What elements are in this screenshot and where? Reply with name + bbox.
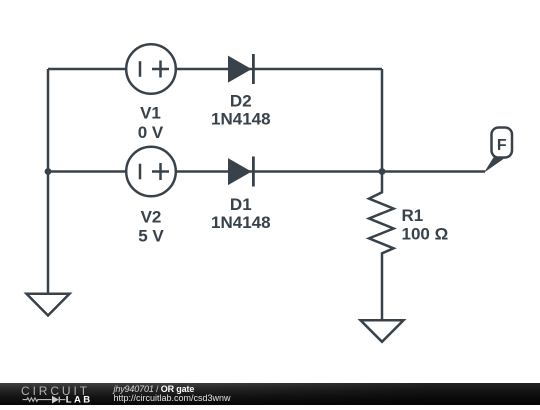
voltage source V1 [126, 44, 176, 94]
label R1 [402, 206, 424, 225]
svg-text:F: F [497, 137, 507, 154]
CircuitLab logo [20, 384, 95, 405]
ground (left rail) [27, 294, 70, 316]
svg-text:100 Ω: 100 Ω [402, 225, 449, 244]
footer title text [114, 385, 195, 394]
wire: second row horizontal net to flag [48, 170, 485, 173]
flag F box [492, 128, 513, 158]
svg-text:0 V: 0 V [138, 123, 164, 142]
footer bar [0, 383, 540, 405]
svg-text:V2: V2 [141, 208, 162, 227]
label V1 [140, 104, 161, 123]
svg-text:V1: V1 [140, 104, 161, 123]
voltage source V2 [126, 147, 176, 197]
diode D1 [228, 157, 253, 187]
label D1 [230, 195, 252, 214]
junction dot output node [379, 168, 386, 175]
value 100 Ω [402, 225, 449, 244]
value 5 V [138, 226, 164, 245]
value 0 V [138, 123, 164, 142]
wire: left vertical rail [47, 69, 50, 294]
svg-text:1N4148: 1N4148 [211, 110, 271, 129]
wire: right vertical between top net and junction [381, 69, 384, 172]
footer url text [114, 394, 231, 403]
value 1N4148 (D1) [211, 213, 271, 232]
resistor R1 [369, 172, 394, 321]
diode D2 [228, 54, 253, 84]
svg-text:5 V: 5 V [138, 226, 164, 245]
flag pennant connector [484, 157, 504, 172]
flag F letter [497, 137, 507, 154]
label D2 [230, 92, 252, 111]
svg-text:1N4148: 1N4148 [211, 213, 271, 232]
junction dot left rail node [45, 168, 52, 175]
svg-text:LAB: LAB [66, 394, 93, 405]
value 1N4148 (D2) [211, 110, 271, 129]
svg-text:D1: D1 [230, 195, 252, 214]
label V2 [141, 208, 162, 227]
wire: top horizontal net from left rail to right rail [48, 68, 382, 71]
svg-text:D2: D2 [230, 92, 252, 111]
ground (below R1) [361, 320, 404, 342]
svg-text:R1: R1 [402, 206, 424, 225]
